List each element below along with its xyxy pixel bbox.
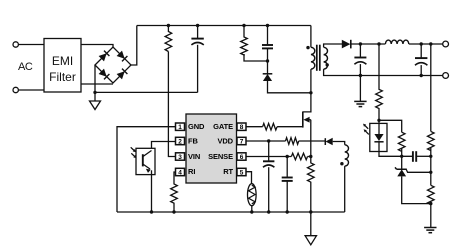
output terminal top (443, 41, 449, 47)
resistor RT (oval) (248, 184, 257, 206)
junction dot C1 at return line (359, 74, 362, 77)
junction dot bridge DC- (93, 91, 96, 94)
pin 3 box (176, 153, 185, 160)
capacitor feedback (horizontal) (412, 151, 414, 162)
diode bottom-left (99, 69, 107, 77)
junction dot snubber R tap (242, 24, 245, 27)
wire gate resistor to MOSFET gate (277, 126, 303, 128)
wire sense resistor to source (308, 156, 311, 158)
wire divider bottom to earth (430, 202, 432, 227)
wire VDD resistor to aux diode (299, 140, 326, 142)
wire divider mid (430, 148, 432, 186)
junction dot sense filter cap tap (286, 155, 289, 158)
wire snubber R bottom to snubber node (244, 54, 268, 61)
capacitor VDD (268, 141, 270, 161)
wire EMI top output to bridge top corner (81, 45, 113, 48)
ground (primary, under bridge) (90, 101, 101, 110)
junction dot divider mid (cap) (429, 155, 432, 158)
svg-text:EMI: EMI (52, 54, 73, 68)
wire EMI bottom output to bridge bottom corner (81, 83, 113, 85)
earth ground under C1 (354, 100, 366, 102)
diode top-left (99, 53, 107, 61)
optocoupler U2 transistor side box (136, 148, 155, 174)
svg-text:3: 3 (178, 154, 182, 161)
svg-text:GATE: GATE (213, 122, 233, 131)
opto LED emission arrows (365, 126, 368, 129)
resistor SENSE series (291, 153, 307, 160)
junction dot divider bottom (429, 202, 432, 205)
svg-text:5: 5 (240, 170, 244, 177)
pin 1 box (176, 123, 185, 130)
capacitor output C2 (420, 44, 422, 58)
drain lead (303, 93, 311, 112)
pin 2 box (176, 137, 185, 144)
junction dot divider ref tap (429, 171, 432, 174)
aux winding (345, 145, 349, 166)
resistor opto bias (398, 132, 405, 151)
wire bottom rail (117, 211, 345, 213)
core bars (316, 45, 318, 71)
capacitor SENSE filter (286, 157, 288, 177)
AC input terminal top (13, 42, 18, 47)
wire LED node to bias resistor (379, 120, 402, 132)
capacitor bulk C-bulk (197, 26, 199, 39)
optocoupler U2 LED side box (370, 123, 387, 151)
wire GND pin to left drop (117, 127, 176, 212)
opto light arrows (131, 147, 134, 150)
wire aux winding bottom to rail (344, 166, 346, 212)
earth ground secondary (424, 227, 436, 229)
opto phototransistor (142, 154, 144, 166)
junction dot source/sense (309, 155, 312, 158)
pin 6 box (237, 153, 246, 160)
pin 7 box (237, 137, 246, 144)
resistor VDD series (286, 138, 299, 145)
wire top DC+ rail (137, 25, 311, 27)
junction dot bulk cap tap (196, 24, 199, 27)
svg-text:AC: AC (18, 61, 33, 73)
junction dot cap2 tap (420, 42, 423, 45)
resistor divider R2 (427, 185, 434, 204)
diode output rectifier (342, 40, 351, 49)
AC input terminal bottom (13, 87, 18, 92)
wire aux diode to aux winding (333, 142, 345, 145)
junction dot VDD cap at rail (267, 210, 270, 213)
svg-text:Filter: Filter (49, 70, 76, 84)
pin 4 box (176, 168, 185, 175)
wire SENSE pin to node (246, 156, 291, 158)
resistor snubber R (241, 26, 248, 56)
svg-text:7: 7 (240, 139, 244, 146)
secondary phase dot (326, 63, 329, 66)
pin 8 box (237, 123, 246, 130)
resistor RI (pin 4 to rail) (171, 172, 178, 212)
junction dot RT at rail (250, 210, 253, 213)
bridge outline (95, 47, 131, 83)
junction dot opto emitter at rail (150, 210, 153, 213)
junction dot snubber C tap (266, 24, 269, 27)
resistor feedback upper (from Vout) (376, 44, 383, 120)
junction dot sense cap at rail (286, 210, 289, 213)
svg-text:6: 6 (240, 154, 244, 161)
opto emitter lead down to rail (151, 170, 153, 212)
diode aux (pointing left) (324, 138, 326, 145)
diode bridge D1-D4 (95, 47, 131, 83)
resistor R-sense (source to rail) (307, 157, 314, 213)
svg-text:8: 8 (240, 124, 244, 131)
wire startup resistor down to VIN pin (168, 52, 175, 157)
diode bottom-right (117, 71, 125, 79)
pin 5 box (237, 168, 246, 175)
junction dot VDD cap tap (267, 139, 270, 142)
junction dot opto LED node (377, 119, 380, 122)
junction dot main ground node (309, 210, 312, 213)
wire TL431 anode to divider bottom (402, 176, 431, 203)
wire bridge right corner up to top rail (131, 26, 137, 66)
wire diode to output node (351, 43, 385, 45)
channel bar (302, 112, 304, 128)
junction dot feedback resistor tap (377, 42, 380, 45)
wire inductor to output terminal (409, 43, 443, 45)
aux phase dot (340, 162, 343, 165)
ground (primary main) (310, 212, 312, 236)
capacitor output C1 (359, 44, 361, 57)
wire VDD pin to node (246, 140, 286, 142)
svg-text:RI: RI (188, 167, 195, 176)
resistor gate series (263, 123, 277, 130)
IC U1 body (186, 114, 237, 183)
opto LED (378, 120, 380, 134)
wire FB pin to opto collector (152, 142, 176, 151)
resistor divider R1 (427, 131, 434, 150)
svg-text:1: 1 (178, 124, 182, 131)
svg-text:4: 4 (178, 170, 182, 177)
source lead (310, 120, 312, 157)
TL431 / zener shunt (401, 156, 403, 169)
diode top-right (117, 51, 125, 59)
svg-text:VDD: VDD (217, 136, 233, 145)
diode snubber (pointing up) (267, 61, 269, 74)
MOSFET Q1 (303, 93, 311, 157)
wire secondary bottom to output return (324, 69, 443, 75)
junction dot startup resistor tap (167, 24, 170, 27)
transformer T1 (306, 26, 442, 93)
junction dot C2 at return line (420, 74, 423, 77)
wire lower DC- rail (95, 91, 198, 93)
inductor output filter (385, 40, 408, 44)
wire RT pin to RT element (246, 172, 252, 184)
capacitor snubber C (267, 26, 269, 45)
junction dot RI at rail (172, 210, 175, 213)
secondary winding (324, 47, 328, 69)
svg-text:GND: GND (188, 122, 205, 131)
svg-text:RT: RT (223, 167, 233, 176)
svg-text:SENSE: SENSE (208, 152, 233, 161)
wire bias resistor to TL431 node (401, 148, 403, 156)
svg-text:FB: FB (188, 136, 198, 145)
junction dot divider tap (429, 42, 432, 45)
wire divider feed (from Vout top, crossing return) (430, 44, 432, 131)
output terminal bottom (443, 73, 449, 79)
wire RT element to rail (251, 206, 253, 212)
EMI filter box U-EMI (44, 39, 81, 93)
wire secondary top to output diode (324, 44, 343, 47)
wire bridge left corner down to ground rail (94, 65, 96, 101)
junction dot TL431 cathode node (400, 155, 403, 158)
wire terminal bottom to EMI (18, 89, 44, 91)
wire snubber diode anode to switching node (268, 81, 311, 93)
svg-text:2: 2 (178, 139, 182, 146)
source arrow (308, 119, 311, 121)
resistor startup (top rail to VIN) (165, 26, 172, 52)
wire GATE pin to gate resistor (246, 126, 263, 128)
primary winding (310, 26, 312, 48)
wire TL431 ref to divider (406, 169, 431, 172)
junction dot at switching node (snubber tap) (309, 91, 312, 94)
junction dot cap1 tap (359, 42, 362, 45)
wire terminal top to EMI (18, 44, 44, 46)
primary phase dot (306, 46, 309, 49)
junction dot snubber node (266, 59, 269, 62)
svg-text:VIN: VIN (188, 152, 200, 161)
